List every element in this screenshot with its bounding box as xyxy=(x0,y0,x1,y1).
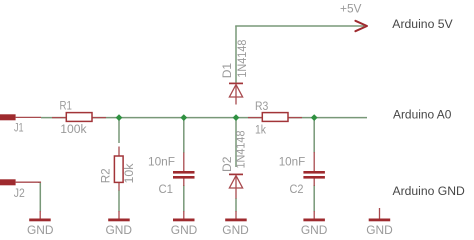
svg-text:GND: GND xyxy=(27,223,54,237)
wire junction A to R2 xyxy=(118,118,120,143)
svg-text:R3: R3 xyxy=(255,99,268,113)
wire junction C to D2 xyxy=(235,118,237,167)
svg-text:D2: D2 xyxy=(220,156,234,172)
svg-text:10nF: 10nF xyxy=(148,155,175,169)
ground (Arduino GND) xyxy=(369,208,391,221)
wire +5V horizontal to arrow xyxy=(235,25,364,27)
ground (J2) xyxy=(29,211,51,221)
wire +5V vertical from D1 xyxy=(235,26,237,83)
svg-text:R2: R2 xyxy=(99,168,113,183)
connector J2 xyxy=(0,179,41,185)
ground (C2) xyxy=(303,211,325,221)
svg-text:J2: J2 xyxy=(14,186,25,200)
svg-text:GND: GND xyxy=(222,223,249,237)
capacitor C2 xyxy=(303,152,325,186)
svg-text:1N4148: 1N4148 xyxy=(235,39,249,77)
wire C1 bottom to ground xyxy=(183,185,185,212)
junction node A (R2 tap) xyxy=(116,114,123,121)
wire J2 elbow down to ground xyxy=(38,182,40,211)
svg-text:R1: R1 xyxy=(60,99,73,113)
connector J1 xyxy=(0,114,41,120)
svg-text:Arduino GND: Arduino GND xyxy=(393,184,465,198)
wire R2 bottom to ground xyxy=(118,190,120,212)
ground (D2) xyxy=(225,211,247,221)
resistor R2 xyxy=(114,147,123,191)
junction node D (C2 tap) xyxy=(311,114,318,121)
svg-text:C1: C1 xyxy=(159,182,174,196)
wire junction D to C2 xyxy=(313,118,315,153)
diode D1 xyxy=(229,83,243,104)
svg-text:Arduino A0: Arduino A0 xyxy=(393,107,452,121)
wire C2 bottom to ground xyxy=(313,185,315,212)
svg-text:GND: GND xyxy=(106,223,133,237)
resistor R1 xyxy=(52,113,106,122)
wire D2 bottom to ground xyxy=(235,198,237,212)
ground (R2) xyxy=(108,211,130,221)
svg-text:10k: 10k xyxy=(122,163,136,184)
ground (C1) xyxy=(173,211,195,221)
svg-text:100k: 100k xyxy=(60,122,87,136)
wire junction B to C1 xyxy=(183,118,185,153)
svg-text:GND: GND xyxy=(171,223,198,237)
+5V supply arrow xyxy=(355,21,367,31)
svg-text:1k: 1k xyxy=(255,123,267,137)
wire net A0 main horizontal xyxy=(41,117,367,119)
svg-text:Arduino 5V: Arduino 5V xyxy=(392,17,453,31)
junction node C (D1/D2 tap) xyxy=(233,114,240,121)
svg-text:1N4148: 1N4148 xyxy=(233,130,247,168)
svg-text:C2: C2 xyxy=(290,182,304,196)
resistor R3 xyxy=(248,113,302,122)
svg-text:+5V: +5V xyxy=(340,2,362,16)
diode D2 xyxy=(229,174,243,198)
svg-text:GND: GND xyxy=(366,223,393,237)
capacitor C1 xyxy=(173,153,195,187)
svg-text:GND: GND xyxy=(301,223,328,237)
junction node B (C1 tap) xyxy=(180,114,187,121)
svg-text:J1: J1 xyxy=(14,121,24,135)
svg-text:10nF: 10nF xyxy=(279,155,306,169)
svg-text:D1: D1 xyxy=(220,63,234,79)
